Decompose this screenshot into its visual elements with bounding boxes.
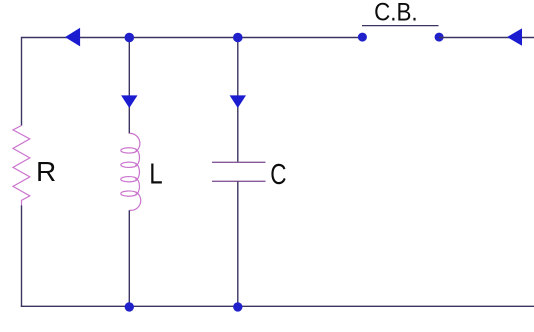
- wire bottom rail: [21, 305, 534, 307]
- wire inductor branch top: [128, 38, 130, 134]
- current arrow (L branch, pointing down): [121, 95, 137, 108]
- wire top rail right segment: [439, 37, 534, 39]
- junction dot (top of C branch): [233, 33, 243, 43]
- circuit breaker right terminal dot: [435, 33, 444, 42]
- junction dot (bottom of L branch): [125, 302, 134, 311]
- current arrow (top right, pointing left): [507, 28, 522, 45]
- circuit breaker left terminal dot: [358, 33, 367, 42]
- capacitor C bottom plate: [212, 180, 266, 182]
- current arrow (top left, pointing left): [65, 28, 80, 47]
- wire top rail left segment: [22, 37, 363, 39]
- wire capacitor branch bottom: [237, 181, 239, 306]
- wire left vertical top (to resistor): [21, 37, 23, 126]
- svg-text:L: L: [149, 157, 162, 189]
- svg-text:C.B.: C.B.: [374, 0, 418, 27]
- circuit breaker blade line: [362, 25, 439, 27]
- wire capacitor branch top: [237, 38, 239, 163]
- junction dot (bottom of C branch): [233, 302, 242, 311]
- junction dot (top of L branch): [125, 33, 135, 43]
- inductor L coil: [121, 133, 141, 210]
- wire left vertical bottom (resistor to bottom rail): [21, 205, 23, 307]
- current arrow (C branch, pointing down): [230, 95, 246, 108]
- wire inductor branch bottom: [128, 210, 130, 306]
- resistor R: [13, 126, 30, 206]
- svg-text:C: C: [270, 160, 286, 191]
- svg-text:R: R: [36, 156, 56, 187]
- capacitor C top plate: [212, 161, 266, 163]
